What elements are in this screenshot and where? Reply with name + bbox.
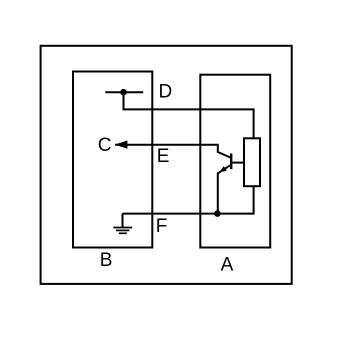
svg-text:D: D <box>159 82 173 103</box>
svg-text:C: C <box>98 135 112 156</box>
svg-text:F: F <box>156 216 168 237</box>
svg-text:B: B <box>100 250 113 271</box>
svg-text:A: A <box>221 254 234 275</box>
svg-text:E: E <box>157 146 170 167</box>
